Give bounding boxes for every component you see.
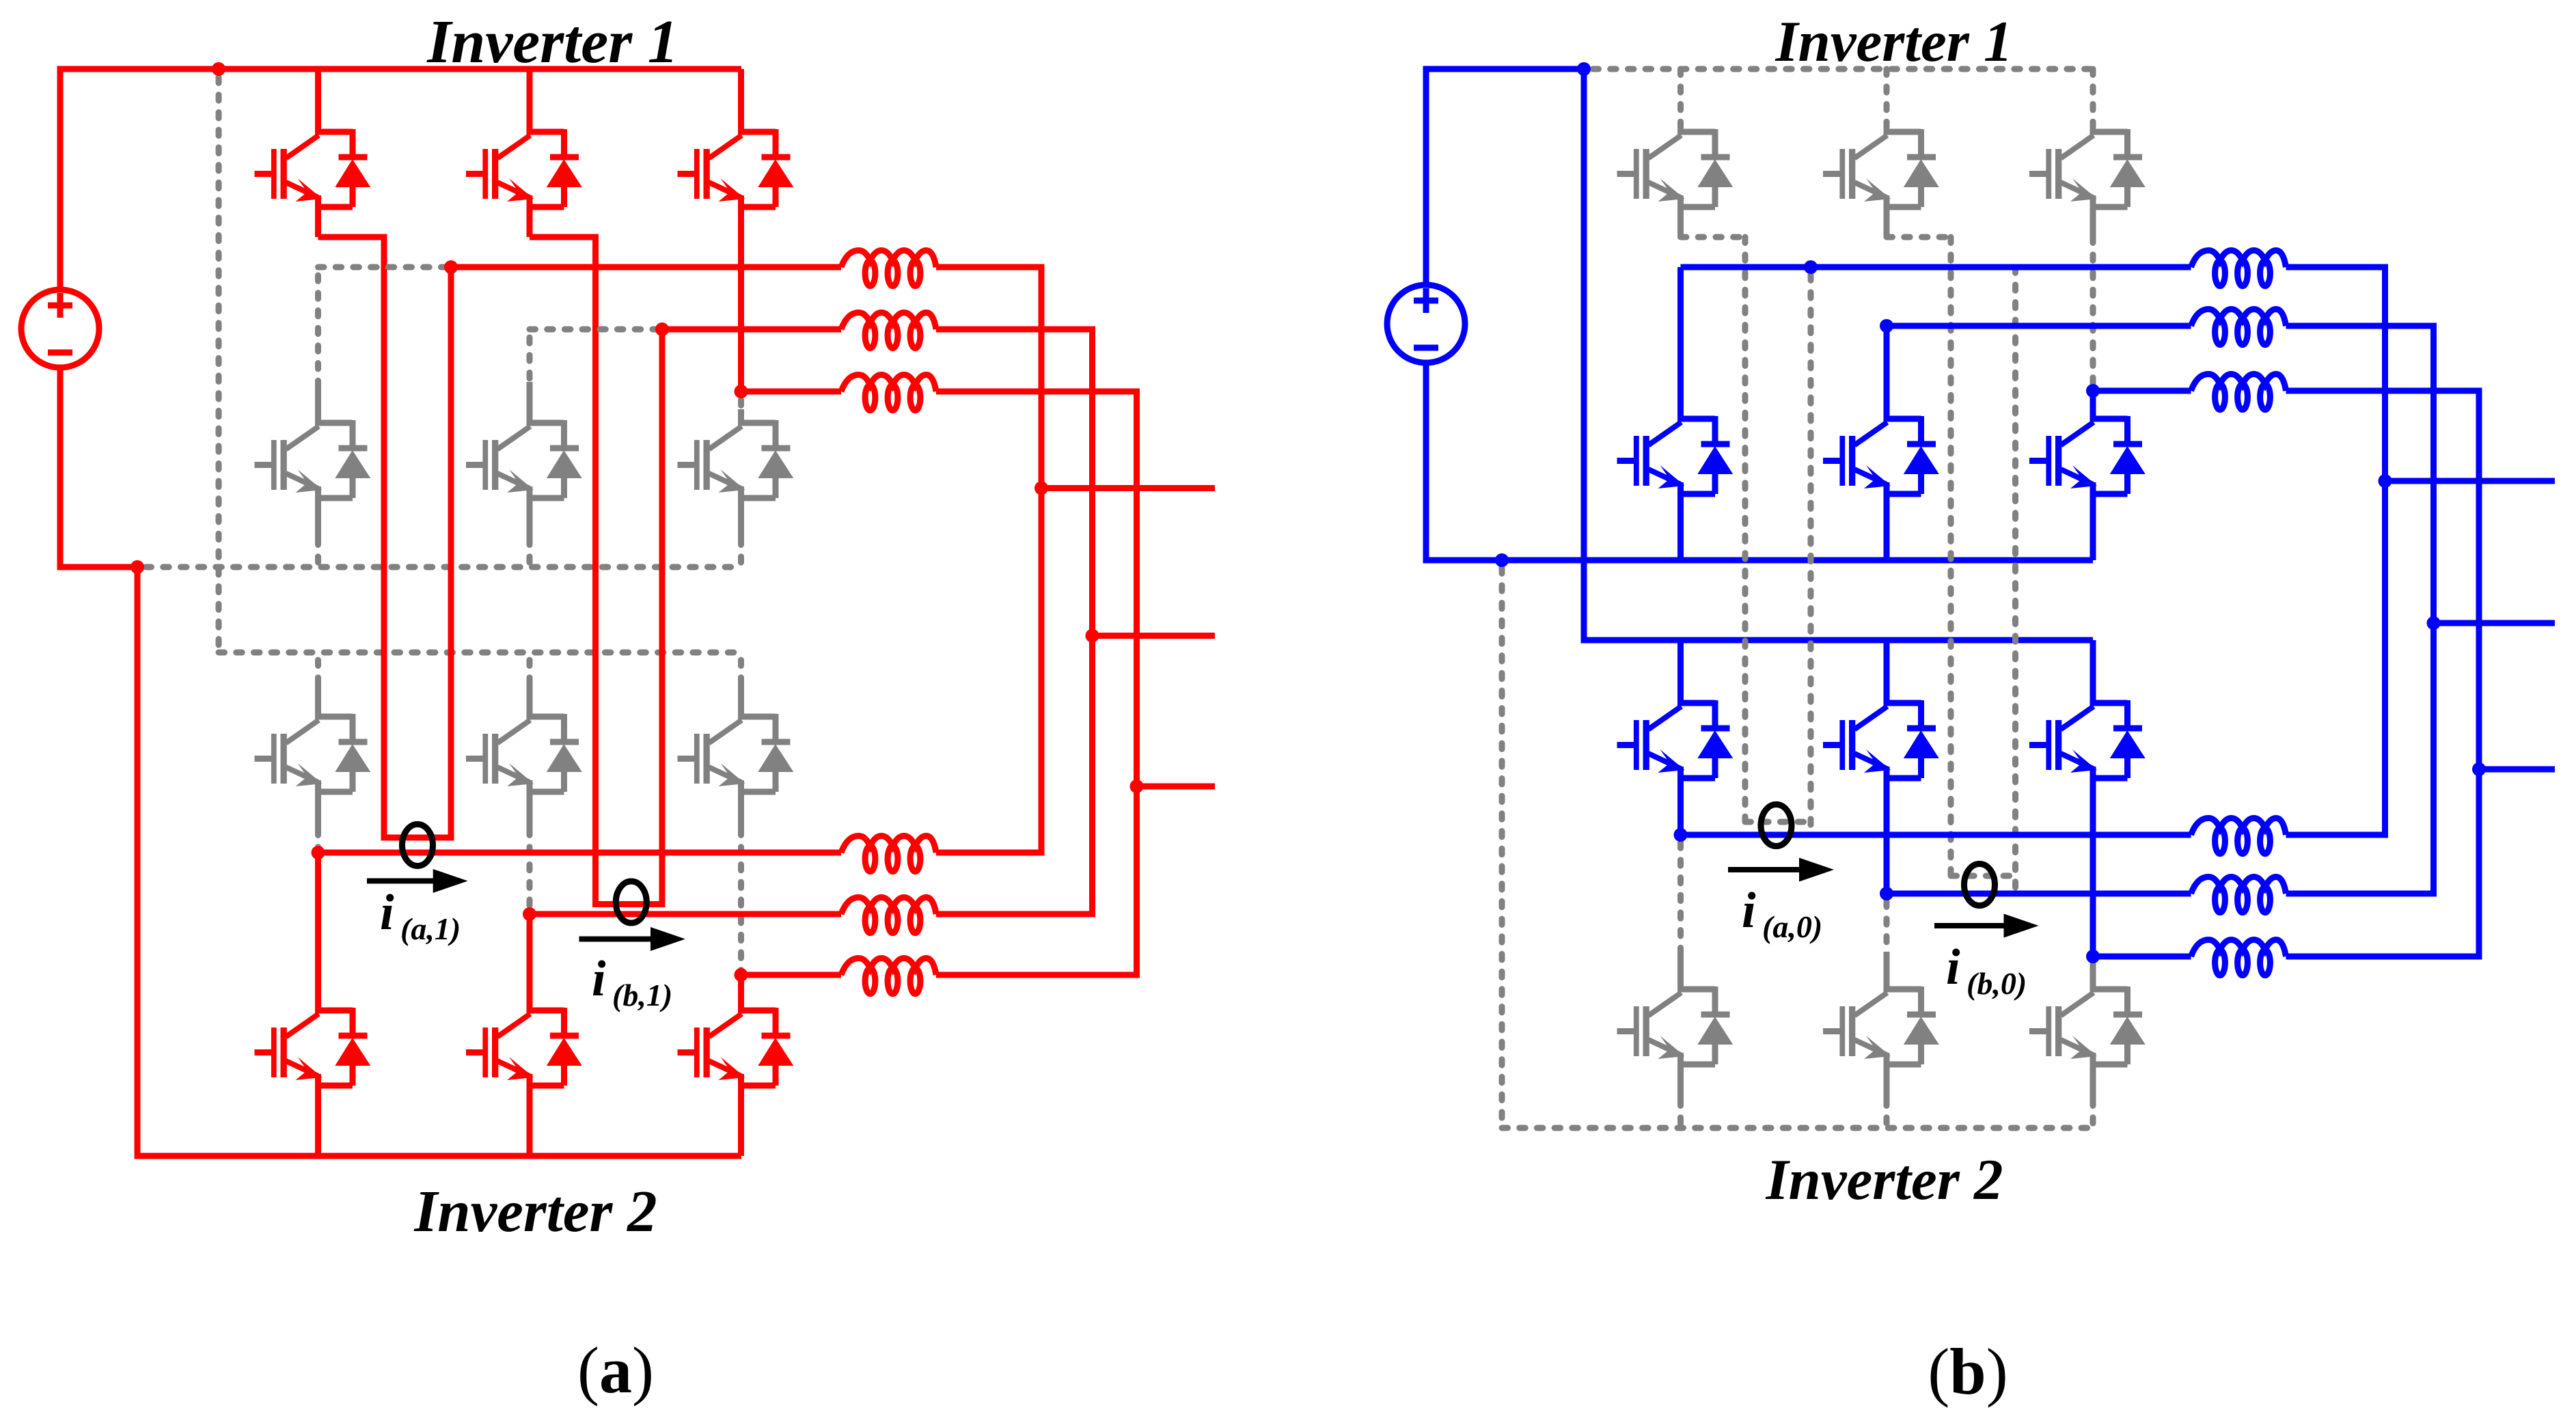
- collector wire Q3c': [2090, 640, 2096, 706]
- winding link vertical phase a (right): [2382, 267, 2388, 838]
- phase b rail to winding (left): [662, 327, 841, 333]
- emitter wire Q3b': [1884, 767, 1890, 894]
- winding link vertical phase b (right): [2430, 326, 2437, 897]
- current direction arrow i(a,1): [367, 879, 438, 884]
- collector stub Q2b: [527, 382, 533, 426]
- wire source- down (left): [57, 370, 64, 570]
- wire collector stub Q1a: [315, 69, 321, 135]
- node phase a (inverter 2 side): [312, 846, 325, 859]
- dashed inverter2 positive rail (left): [219, 650, 741, 656]
- node: top bus / inverter2 positive link (right): [1577, 62, 1591, 76]
- phase c lower rail (right): [2093, 954, 2191, 960]
- node phase c (right, inverter2): [2086, 950, 2100, 963]
- transistor Q4b (IGBT with anti-parallel diode): [466, 1008, 582, 1086]
- collector stub Q2c: [738, 409, 744, 426]
- dashed wire source- to inverter2 negative (right): [1499, 568, 1505, 1128]
- dashed emitter link Q2a: [315, 539, 321, 567]
- inductor L_c1 (left bottom of top group) (winding): [841, 375, 936, 411]
- dashed emitter jog Q1b': [1887, 234, 1951, 240]
- current sensor i(b,1): [616, 881, 646, 923]
- emitter wire Q4c: [738, 1074, 744, 1156]
- phase a rail to winding (left): [451, 264, 841, 271]
- transistor Q4b' (IGBT with anti-parallel diode): [1823, 987, 1939, 1064]
- wire sensor leg down (phase a): [381, 234, 387, 838]
- dashed inverter2 negative bus (right): [1502, 1125, 2094, 1131]
- current direction arrow i(a,0): [1728, 867, 1804, 872]
- node phase b rail start (right): [1880, 319, 1893, 333]
- dashed emitter link Q2b: [527, 539, 533, 567]
- transistor Q3b' (IGBT with anti-parallel diode): [1823, 700, 1939, 778]
- winding link vertical phase b (left): [1089, 329, 1095, 918]
- collector wire Q2c': [2090, 391, 2096, 422]
- node phase b (inverter 2 side): [523, 907, 536, 921]
- dashed collector link Q3c: [738, 660, 744, 687]
- wire sensor U bottom (phase b): [592, 901, 662, 907]
- phase b rail after winding (left): [936, 327, 1095, 333]
- top positive bus (left): [57, 66, 742, 72]
- svg-text:Inverter 1: Inverter 1: [1775, 10, 2012, 74]
- inductor L_b1 (right) (winding): [2191, 309, 2286, 345]
- phase c rail after winding (right): [2286, 388, 2482, 394]
- transistor Q3a (IGBT with anti-parallel diode): [255, 714, 371, 792]
- terminal stub c (right): [2479, 767, 2555, 773]
- dashed wire: source+ to inverter2 positive rail: [216, 77, 222, 652]
- svg-text:i: i: [592, 951, 606, 1007]
- dashed collector link Q2b: [527, 337, 533, 382]
- phase a lower rail after winding (right): [2286, 832, 2385, 838]
- svg-text:(a): (a): [577, 1334, 654, 1407]
- inductor L_c1 (right) (winding): [2191, 374, 2286, 410]
- emitter stub Q3b: [527, 780, 533, 829]
- terminal stub b (right): [2434, 620, 2556, 626]
- dashed link rail to phase-b node (right): [2012, 267, 2018, 894]
- wire collector stub Q1b: [527, 69, 533, 135]
- phase b lower rail after winding (left): [936, 911, 1093, 918]
- transistor Q2b' (IGBT with anti-parallel diode): [1823, 416, 1939, 494]
- phase b rail (right): [1887, 323, 2191, 329]
- wire source- down (right): [1423, 365, 1429, 564]
- emitter wire Q3c': [2090, 767, 2096, 956]
- current direction arrow i(b,1): [579, 937, 656, 942]
- inductor L_b2 (right lower) (winding): [2191, 877, 2286, 913]
- dashed inverter1 negative bus (left): [146, 564, 741, 570]
- winding link vertical phase c (left): [1134, 391, 1140, 978]
- phase a rail (right): [1681, 264, 2191, 271]
- phase a rail after winding (right): [2286, 264, 2389, 271]
- collector wire Q4c: [738, 975, 744, 1013]
- dashed collector stub Q1a': [1677, 69, 1684, 132]
- inductor L_c2 (left lower) (winding): [841, 958, 936, 994]
- dashed collector stub Q1b': [1884, 69, 1890, 132]
- collector stub Q2a: [315, 383, 321, 426]
- current sensor i(a,1): [402, 825, 433, 866]
- phase a rail after winding (left): [936, 264, 1045, 271]
- transistor Q3b (IGBT with anti-parallel diode): [466, 714, 582, 792]
- svg-text:(b,0): (b,0): [1967, 966, 2027, 1001]
- node terminal b (left): [1086, 629, 1099, 643]
- current sensor i(b,0): [1964, 864, 1995, 906]
- collector wire Q2b': [1884, 326, 1890, 422]
- dashed collector link Q3a: [315, 660, 321, 687]
- collector stub Q4a': [1677, 952, 1684, 992]
- node terminal c (right): [2472, 762, 2486, 776]
- dashed emitter link Q3a: [315, 829, 321, 853]
- wire sensor leg up (phase b): [659, 329, 666, 907]
- phase c rail after winding (left): [936, 389, 1140, 395]
- svg-text:i: i: [1946, 939, 1960, 995]
- phase b lower rail (right): [1887, 891, 2191, 897]
- dashed collector stub Q1c': [2090, 69, 2096, 132]
- transistor Q3c' (IGBT with anti-parallel diode): [2029, 700, 2146, 778]
- dashed top rail (right): [1593, 66, 2093, 72]
- phase b lower rail (left): [530, 911, 841, 918]
- inductor L_b1 (left mid) (winding): [841, 313, 936, 348]
- dashed collector link Q4b': [1884, 901, 1890, 952]
- transistor Q2b (IGBT with anti-parallel diode): [466, 420, 582, 498]
- transistor Q2c (IGBT with anti-parallel diode): [678, 420, 794, 498]
- dashed collector link Q2c: [738, 400, 744, 409]
- node phase a rail / dashed link (right): [1804, 260, 1818, 274]
- phase c lower rail after winding (right): [2286, 954, 2480, 960]
- wire negative down-left rail (left): [135, 564, 141, 1159]
- node: negative bus / inverter2 link (right): [1495, 553, 1509, 567]
- emitter wire Q2c': [2090, 482, 2096, 560]
- inductor L_a1 (left top) (winding): [841, 251, 936, 286]
- node terminal a (right): [2379, 474, 2392, 488]
- inductor L_b2 (left lower) (winding): [841, 898, 936, 933]
- transistor Q2a' (IGBT with anti-parallel diode): [1617, 416, 1734, 494]
- dashed emitter link Q4a': [1677, 1100, 1684, 1128]
- emitter stub Q4b': [1884, 1053, 1890, 1100]
- node phase a rail start (left): [444, 260, 458, 274]
- terminal stub b (left): [1093, 633, 1216, 639]
- dashed collector link Q4c': [2090, 952, 2096, 964]
- dashed emitter link Q4c': [2090, 1100, 2096, 1128]
- transistor Q1a (IGBT with anti-parallel diode): [255, 129, 371, 207]
- phase c rail to winding (left): [741, 389, 842, 395]
- emitter stub Q3c: [738, 780, 744, 829]
- svg-text:(b,1): (b,1): [612, 978, 672, 1012]
- phase a lower rail after winding (left): [936, 850, 1041, 856]
- dashed sensor leg (phase b right): [1948, 237, 1954, 876]
- terminal stub a (left): [1041, 485, 1215, 491]
- terminal stub a (right): [2385, 478, 2556, 484]
- wire sensor leg down (phase b): [592, 234, 599, 905]
- transistor Q2a (IGBT with anti-parallel diode): [255, 420, 371, 498]
- phase c lower rail after winding (left): [936, 972, 1137, 978]
- emitter stub Q2b: [527, 486, 533, 539]
- dashed phase-b rail to lower switch (left): [530, 327, 662, 333]
- wire source- jog right (left): [57, 564, 138, 570]
- emitter wire Q4a: [315, 1074, 321, 1156]
- dashed collector link Q3b: [527, 660, 533, 687]
- transistor Q4a' (IGBT with anti-parallel diode): [1617, 987, 1734, 1064]
- node phase a (right, inverter2): [1674, 828, 1688, 842]
- transistor Q2c' (IGBT with anti-parallel diode): [2029, 416, 2146, 494]
- emitter stub Q2a: [315, 486, 321, 539]
- terminal stub c (left): [1137, 784, 1216, 790]
- collector stub Q3b: [527, 683, 533, 719]
- dashed emitter link Q2c: [738, 539, 744, 567]
- winding link vertical phase c (right): [2476, 391, 2482, 960]
- dashed collector link Q2a: [315, 275, 321, 383]
- transistor Q1c (IGBT with anti-parallel diode): [678, 129, 794, 207]
- phase c rail (right): [2093, 388, 2191, 394]
- wire emitter stub Q1b: [527, 195, 533, 237]
- collector stub Q4c': [2090, 952, 2096, 992]
- collector stub Q3c: [738, 683, 744, 719]
- emitter stub Q1b': [1884, 195, 1890, 237]
- collector stub Q4b': [1884, 952, 1890, 992]
- emitter stub Q3a: [315, 780, 321, 829]
- top positive bus (right): [1423, 66, 1585, 72]
- emitter stub Q4c': [2090, 1053, 2096, 1100]
- node terminal c (left): [1130, 780, 1144, 793]
- node terminal b (right): [2427, 616, 2441, 630]
- svg-text:i: i: [1742, 883, 1756, 939]
- wire emitter Q1c down to phase c rail: [738, 195, 744, 391]
- dashed emitter link Q3b: [527, 829, 533, 914]
- svg-text:(a,1): (a,1): [400, 911, 461, 946]
- emitter wire Q2b': [1884, 482, 1890, 560]
- inductor L_c2 (right lower) (winding): [2191, 940, 2286, 976]
- current direction arrow i(b,0): [1934, 923, 2009, 928]
- emitter stub Q1c': [2090, 195, 2096, 237]
- emitter stub Q1a': [1677, 195, 1684, 237]
- transistor Q3a' (IGBT with anti-parallel diode): [1617, 700, 1734, 778]
- inverter1 negative bus (right): [1423, 557, 2094, 564]
- phase c lower rail (left): [741, 972, 842, 978]
- svg-text:(b): (b): [1928, 1335, 2008, 1408]
- wire emitter jog Q1b: [530, 234, 596, 240]
- transistor Q1b (IGBT with anti-parallel diode): [466, 129, 582, 207]
- node: source- / inverter1 negative bus (left): [131, 560, 144, 574]
- dashed collector link Q4a': [1677, 842, 1684, 952]
- phase b rail after winding (right): [2286, 323, 2437, 329]
- transistor Q4c' (IGBT with anti-parallel diode): [2029, 987, 2146, 1064]
- svg-text:Inverter 2: Inverter 2: [1765, 1148, 2003, 1212]
- collector stub Q3a: [315, 683, 321, 719]
- inductor L_a1 (right top) (winding): [2191, 251, 2286, 286]
- emitter wire Q3a': [1677, 767, 1684, 835]
- dashed U bottom (phase b right): [1951, 873, 2016, 879]
- emitter wire Q4b: [527, 1074, 533, 1156]
- svg-text:Inverter 2: Inverter 2: [413, 1178, 657, 1244]
- phase a lower rail (left): [318, 850, 842, 856]
- svg-text:i: i: [380, 885, 394, 941]
- transistor Q1a' (IGBT with anti-parallel diode): [1617, 129, 1734, 207]
- wire source+ to top bus (left): [57, 69, 64, 287]
- dashed emitter jog Q1a': [1681, 234, 1746, 240]
- svg-text:Inverter 1: Inverter 1: [426, 8, 678, 76]
- current sensor i(a,0): [1761, 805, 1792, 846]
- emitter stub Q2c: [738, 486, 744, 539]
- node phase b rail start (left): [655, 322, 669, 336]
- dashed link rail-a to phase node (right): [1808, 275, 1814, 835]
- dashed U bottom (phase a right): [1745, 819, 1811, 825]
- wire emitter jog Q1a: [318, 234, 385, 240]
- transistor Q1c' (IGBT with anti-parallel diode): [2029, 129, 2146, 207]
- winding link vertical phase a (left): [1039, 267, 1045, 856]
- inverter 2 negative bus (left): [135, 1153, 742, 1159]
- dashed emitter link Q3c: [738, 829, 744, 975]
- node: top bus / inverter2 link (left): [212, 62, 225, 76]
- node phase c rail start (left): [735, 385, 748, 398]
- wire source+ to top bus (right): [1423, 69, 1429, 282]
- node phase b (right, inverter2): [1880, 887, 1893, 900]
- node terminal a (left): [1034, 482, 1048, 495]
- collector wire Q4a: [315, 853, 321, 1013]
- DC voltage source V1 (left): [21, 290, 99, 368]
- transistor Q4c (IGBT with anti-parallel diode): [678, 1008, 794, 1086]
- emitter wire Q2a': [1677, 482, 1684, 560]
- dashed sensor leg (phase a right): [1742, 237, 1749, 822]
- collector wire Q3b': [1884, 640, 1890, 706]
- wire sensor U bottom (phase a): [381, 835, 452, 841]
- collector wire Q2a': [1677, 267, 1684, 422]
- inductor L_a2 (right lower) (winding): [2191, 818, 2286, 854]
- collector wire Q3a': [1677, 640, 1684, 706]
- emitter stub Q4a': [1677, 1053, 1684, 1100]
- phase b lower rail after winding (right): [2286, 891, 2434, 897]
- inverter2 positive rail (right): [1584, 637, 2093, 644]
- dashed emitter link Q1c' to phase c rail: [2090, 237, 2096, 391]
- node phase c (inverter 2 side): [735, 968, 748, 982]
- dashed phase-a rail to lower switch (left): [318, 264, 452, 271]
- svg-text:(a,0): (a,0): [1762, 909, 1822, 944]
- wire emitter stub Q1a: [315, 195, 321, 237]
- inductor L_a2 (left lower) (winding): [841, 836, 936, 872]
- transistor Q3c (IGBT with anti-parallel diode): [678, 714, 794, 792]
- wire sensor leg up (phase a): [448, 267, 454, 841]
- wire collector stub Q1c: [738, 69, 744, 135]
- transistor Q1b' (IGBT with anti-parallel diode): [1823, 129, 1939, 207]
- wire source+ to inverter2 positive rail (right): [1581, 69, 1587, 644]
- DC voltage source V1 (right): [1387, 285, 1465, 363]
- phase a lower rail (right): [1681, 832, 2191, 838]
- node phase c rail start (right): [2086, 384, 2100, 398]
- dashed emitter link Q4b': [1884, 1100, 1890, 1128]
- transistor Q4a (IGBT with anti-parallel diode): [255, 1008, 371, 1086]
- collector wire Q4b: [527, 914, 533, 1013]
